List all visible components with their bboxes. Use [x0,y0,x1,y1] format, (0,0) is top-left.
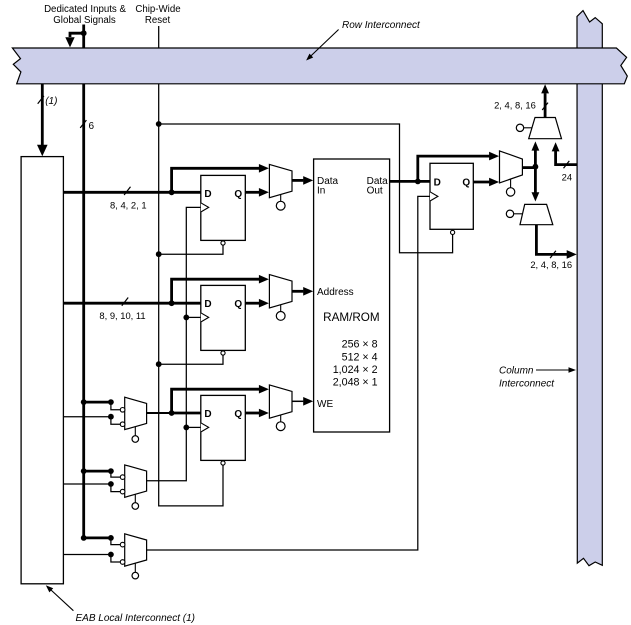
wire input mux C (output clock source) input 2 from EAB local [63,554,111,556]
node data out junction [415,179,421,185]
svg-text:Q: Q [462,178,470,189]
node clock tap FF2 [183,315,189,321]
svg-text:RAM/ROM: RAM/ROM [323,311,380,324]
svg-text:WE: WE [317,399,333,410]
bus-width slash 24 [564,161,570,168]
row driver buffer U1 [529,118,562,139]
wire input mux A (WE source) input 2 from EAB local [63,416,111,418]
wire address input row from EAB [63,302,200,305]
node input mux B (clock source) input 1 tap [81,468,87,474]
node input mux C (output clock source) input 2 corner [108,552,114,558]
node reset-FF2 junction [156,361,162,367]
wire input mux A (WE source) input 1 from global bus [84,401,111,404]
svg-text:Chip-Wide: Chip-Wide [135,4,180,15]
wire FF2 Q to mux M2 [245,302,259,305]
svg-text:512 × 4: 512 × 4 [342,351,378,363]
wire FF1 Q to mux M1 [245,191,259,194]
svg-text:Address: Address [317,287,354,298]
svg-text:24: 24 [562,172,572,183]
svg-text:D: D [204,299,211,310]
svg-text:Out: Out [367,186,383,197]
wire data input row from EAB [63,191,200,194]
svg-text:D: D [204,409,211,420]
flip-flop FF1 clock triangle [201,203,209,212]
node input mux A (WE source) input 1 corner [108,399,114,405]
bus-width slash 6 [80,120,86,128]
svg-text:EAB Local Interconnect (1): EAB Local Interconnect (1) [76,613,196,624]
svg-text:Interconnect: Interconnect [499,378,555,389]
flip-flop FF2 (address) box [201,285,246,350]
node address row junction [169,300,175,306]
column driver buffer U2 [520,204,553,224]
flip-flop FF3 clear bubble [221,461,225,465]
svg-text:Q: Q [234,409,242,420]
mux M1 (data in bypass) [269,164,292,197]
svg-text:6: 6 [89,121,95,132]
wire output node to row driver [534,150,537,167]
wire chip-wide reset vertical [159,26,223,506]
wire input mux B (clock source) input 2 from EAB local [63,483,111,485]
wire 24 column feedback to row driver [556,151,577,165]
svg-text:Row Interconnect: Row Interconnect [342,20,421,31]
wire WE row from input mux A [147,412,172,414]
svg-text:256 × 8: 256 × 8 [342,338,378,350]
row interconnect bus (horizontal band) [12,48,627,84]
bus-width slash 8,4,2,1 [124,187,130,195]
node input mux B (clock source) input 1 corner [108,468,114,474]
flip-flop FF2 clock triangle [201,313,209,322]
RAM/ROM block [314,159,390,432]
flip-flop FF1 (data in) box [201,175,246,240]
wire mux C out to FF4 clock [147,196,430,550]
svg-text:In: In [317,186,325,197]
pointer to column interconnect [536,369,570,371]
wire FF4 Q to output mux [473,181,489,184]
wire FF3 Q to mux M3 [245,412,259,415]
node input mux C (output clock source) input 1 corner [108,535,114,541]
svg-text:(1): (1) [45,96,57,107]
svg-text:8, 9, 10, 11: 8, 9, 10, 11 [99,310,145,321]
wire reset loop to output FF clear bubble [159,124,453,253]
mux input mux C (output clock source) body [125,534,147,566]
svg-text:Global Signals: Global Signals [53,15,116,26]
svg-text:D: D [204,189,211,200]
column interconnect bus (vertical band) [577,11,602,566]
wire address row branch to mux bypass [172,279,260,303]
node reset-loop junction [156,121,162,127]
mux input mux A (WE source) body [125,397,147,429]
wire clock tap to FF2 [186,316,201,318]
wire mux M2 out to RAM Address [292,290,303,293]
svg-text:1,024 × 2: 1,024 × 2 [333,364,378,376]
wire data row branch to mux bypass [172,168,260,192]
wire register clock chain from mux B [147,207,201,480]
mux M2 (address bypass) [269,275,292,308]
svg-text:2, 4, 8, 16: 2, 4, 8, 16 [530,259,572,270]
bus-width slash 2,4,8,16 top [542,103,548,110]
node WE row junction [169,410,175,416]
pointer to row interconnect [308,30,338,59]
flip-flop FF2 clear bubble [221,351,225,355]
wire reset to FF2 clear bubble [159,355,223,364]
wire data out branch to output mux [418,156,490,181]
wire clock tap to FF3 [186,426,201,428]
flip-flop FF1 clear bubble [221,241,225,245]
node data row junction [169,189,175,195]
bus-width slash (1) [38,96,44,104]
flip-flop FF4 (output register) box [430,163,473,229]
node dedicated-bus branch junction [81,30,87,36]
node clock tap FF3 [183,425,189,431]
svg-text:Q: Q [234,299,242,310]
wire RAM Data Out to FF4 [390,180,430,183]
node input mux A (WE source) input 2 corner [108,414,114,420]
wire (1) input to EAB local interconnect with arrow [41,84,44,146]
flip-flop FF3 (WE) box [201,395,246,460]
svg-text:Dedicated Inputs &: Dedicated Inputs & [44,4,126,15]
svg-text:2, 4, 8, 16: 2, 4, 8, 16 [494,100,536,111]
wire dedicated inputs bus (6 signals) vertical [82,25,85,538]
wire input mux B (clock source) input 1 from global bus [84,470,111,473]
node input mux A (WE source) input 1 tap [81,399,87,405]
node input mux B (clock source) input 2 corner [108,481,114,487]
svg-text:8, 4, 2, 1: 8, 4, 2, 1 [110,200,146,211]
node input mux C (output clock source) input 1 tap [81,535,87,541]
bus-width slash 8,9,10,11 [122,298,128,306]
node reset-FF1 junction [156,251,162,257]
bus-width slash 2,4,8,16 bottom [550,251,556,258]
wire branch into row bus with arrow [70,33,84,37]
svg-text:Column: Column [499,365,534,376]
svg-text:D: D [434,178,441,189]
wire column driver to column interconnect [536,225,567,255]
wire WE row branch to mux bypass [172,389,260,413]
wire mux M4 out to column feed node [522,166,535,169]
wire output node to column driver [534,167,537,196]
mux input mux B (clock source) body [125,465,147,497]
flip-flop FF4 clear bubble [451,230,455,234]
wire mux M1 out to RAM Data In [292,179,303,182]
mux M3 (WE bypass) [269,385,292,418]
wire mux M3 out to RAM WE [292,400,303,402]
svg-text:2,048 × 1: 2,048 × 1 [333,377,378,389]
mux M4 (output bypass) [500,151,523,183]
pointer to EAB local interconnect [51,590,74,611]
svg-text:Reset: Reset [145,15,171,26]
node output node [533,164,539,170]
wire reset to FF1 clear bubble [159,245,223,254]
wire row driver to row interconnect [544,93,547,117]
wire input mux C (output clock source) input 1 from global bus [84,537,111,540]
svg-text:Q: Q [234,189,242,200]
flip-flop FF4 clock triangle [430,192,438,201]
flip-flop FF3 clock triangle [201,423,209,432]
EAB local interconnect block [21,157,63,584]
